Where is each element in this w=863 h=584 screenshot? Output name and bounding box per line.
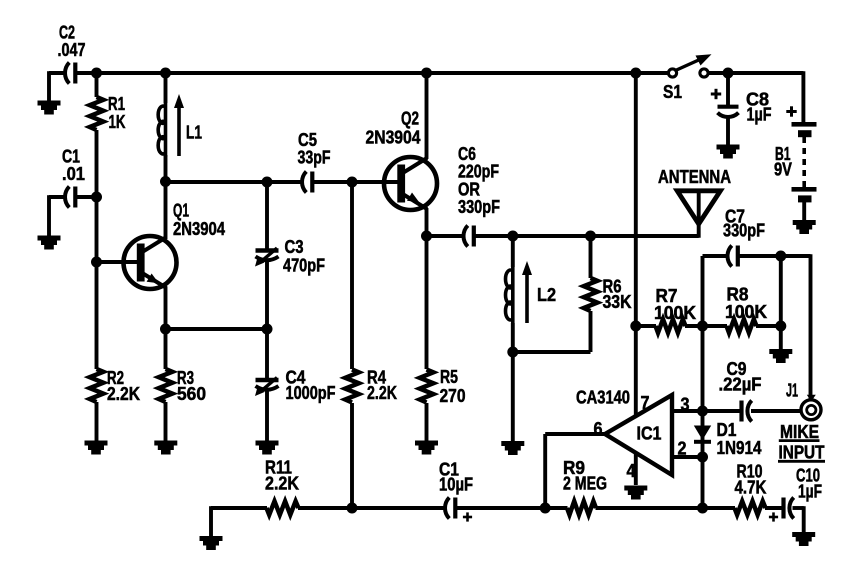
- svg-text:3: 3: [681, 395, 690, 415]
- wire R7 right lead: [685, 324, 703, 328]
- inductor L2 arrow: [525, 270, 529, 323]
- resistor R3: [159, 369, 173, 402]
- wire L1 top lead: [164, 73, 168, 103]
- node R6 top: [585, 231, 596, 242]
- node C3-C4: [262, 324, 273, 335]
- wire C2 ground lead: [47, 71, 51, 101]
- wire V+ column x636: [634, 73, 638, 434]
- svg-text:.22µF: .22µF: [719, 375, 762, 395]
- svg-text:IC1: IC1: [637, 424, 662, 444]
- capacitor C1a: [65, 187, 69, 208]
- wire jack column x809: [809, 254, 813, 399]
- wire R6 bottom lead: [589, 311, 593, 352]
- resistor R4: [345, 370, 359, 403]
- ground below R3: [154, 441, 177, 455]
- wire C3 top lead: [265, 182, 269, 249]
- svg-text:330pF: 330pF: [723, 221, 765, 241]
- wire C1 left lead: [49, 195, 67, 199]
- wire C7R8 ground column: [779, 256, 783, 350]
- node C1-R1: [91, 192, 102, 203]
- ground below C4: [256, 441, 279, 455]
- svg-text:Q1: Q1: [173, 201, 189, 221]
- capacitor C2: [65, 63, 69, 84]
- node top rail / C8: [723, 68, 734, 79]
- node R7 left: [630, 321, 641, 332]
- inductor L1: [164, 103, 168, 157]
- svg-text:MIKE: MIKE: [780, 422, 819, 442]
- wire bottom rail seg4: [596, 506, 736, 510]
- resistor R9: [567, 501, 596, 515]
- wire base line y182: [166, 180, 305, 184]
- inductor L2: [511, 267, 515, 323]
- wire L2-R6 bottom link y352: [513, 350, 591, 354]
- svg-text:2.2K: 2.2K: [107, 384, 140, 404]
- node C7 right: [775, 251, 786, 262]
- svg-text:560: 560: [177, 384, 206, 404]
- wire base line y182 right: [314, 180, 399, 184]
- inductor L1 arrow: [177, 103, 181, 156]
- resistor R2: [90, 369, 104, 402]
- svg-text:220pF: 220pF: [458, 162, 499, 182]
- wire emitter line y236: [427, 234, 466, 238]
- node C3 top: [262, 177, 273, 188]
- ground below C1: [38, 236, 61, 250]
- node L2 bottom: [507, 347, 518, 358]
- wire C10 ground drop: [802, 506, 806, 532]
- wire Q2 collector up: [425, 73, 429, 159]
- jack J1: [801, 400, 821, 420]
- plus sign B1: [786, 110, 796, 113]
- capacitor C10: [781, 498, 785, 519]
- ground below R2: [85, 441, 108, 455]
- wire C4 to ground: [265, 391, 269, 442]
- wire C9 to jack: [751, 409, 802, 413]
- wire R3 to ground: [164, 402, 168, 441]
- svg-text:33pF: 33pF: [298, 148, 331, 168]
- ground below R5: [415, 441, 438, 455]
- wire C8 top lead: [726, 73, 730, 106]
- wire pin6 down column: [543, 434, 547, 508]
- resistor R6: [584, 278, 598, 311]
- svg-text:100K: 100K: [725, 302, 767, 322]
- diode D1: [694, 426, 711, 441]
- wire R7 left lead: [636, 324, 656, 328]
- node top rail / V+ column: [630, 68, 641, 79]
- svg-text:270: 270: [440, 386, 466, 406]
- wire Q2 emitter down: [425, 208, 429, 236]
- svg-text:ANTENNA: ANTENNA: [658, 167, 731, 187]
- svg-text:1µF: 1µF: [747, 105, 772, 125]
- op-amp IC1: [605, 395, 672, 475]
- transistor Q2: [384, 157, 437, 210]
- svg-text:.047: .047: [58, 40, 86, 60]
- wire op-amp pin4 down: [634, 434, 638, 485]
- node L1-Q1 collector: [160, 176, 171, 187]
- svg-text:C3: C3: [285, 237, 304, 257]
- svg-text:R1: R1: [108, 94, 125, 114]
- wire top rail left segment: [49, 71, 67, 75]
- resistor R11: [267, 501, 299, 515]
- svg-text:1µF: 1µF: [798, 482, 822, 502]
- wire top rail after switch: [708, 71, 804, 75]
- node rail / pin6: [540, 503, 551, 514]
- capacitor C9: [739, 401, 743, 422]
- wire C7 line left: [701, 256, 705, 258]
- underline INPUT: [778, 460, 825, 463]
- svg-text:330pF: 330pF: [458, 197, 500, 217]
- ground below B1: [793, 220, 816, 234]
- svg-text:CA3140: CA3140: [576, 388, 630, 408]
- wire L2 to ground: [511, 352, 515, 442]
- svg-text:1N914: 1N914: [717, 438, 762, 458]
- wire bottom rail seg2: [298, 506, 447, 510]
- svg-text:L1: L1: [186, 123, 202, 143]
- wire feedback column x702: [701, 256, 705, 508]
- plus sign C10: [769, 516, 778, 519]
- wire antenna lead: [697, 190, 701, 238]
- wire C1 right lead: [77, 195, 97, 199]
- svg-text:S1: S1: [663, 82, 682, 102]
- underline MIKE: [779, 439, 820, 442]
- svg-text:J1: J1: [786, 381, 798, 401]
- resistor R10: [735, 501, 766, 515]
- variable capacitor C4: [256, 378, 279, 382]
- wire bottom rail seg5: [765, 506, 784, 510]
- svg-text:D1: D1: [717, 420, 737, 440]
- plus sign C8: [711, 93, 721, 96]
- capacitor C6: [464, 226, 468, 247]
- wire R5 top lead: [425, 236, 429, 369]
- svg-text:2 MEG: 2 MEG: [563, 474, 607, 494]
- svg-text:1000pF: 1000pF: [286, 383, 336, 403]
- node pin3 / D1: [697, 406, 708, 417]
- svg-text:L2: L2: [537, 285, 556, 305]
- variable capacitor C3: [256, 248, 279, 252]
- ground below C10: [792, 532, 815, 546]
- node L2 top: [507, 231, 518, 242]
- wire C1 ground lead: [47, 195, 51, 236]
- node top rail / R1: [91, 68, 102, 79]
- svg-text:2N3904: 2N3904: [173, 219, 225, 239]
- wire C8 to ground: [726, 117, 730, 145]
- svg-text:9V: 9V: [774, 160, 792, 180]
- node Q2 emitter / R5: [421, 231, 432, 242]
- svg-text:33K: 33K: [603, 292, 632, 312]
- ground below C8: [717, 145, 740, 159]
- svg-text:2: 2: [678, 439, 687, 459]
- svg-text:1K: 1K: [109, 112, 126, 132]
- svg-text:4.7K: 4.7K: [735, 478, 767, 498]
- capacitor C8: [718, 105, 739, 109]
- svg-text:10µF: 10µF: [439, 475, 473, 495]
- capacitor C1 10uF: [445, 498, 449, 519]
- svg-text:470pF: 470pF: [283, 256, 325, 276]
- wire bottom rail seg1: [211, 506, 267, 510]
- ground below C2: [38, 101, 61, 115]
- wire y236 to antenna: [475, 234, 699, 238]
- node top rail / L1: [160, 68, 171, 79]
- svg-text:2.2K: 2.2K: [265, 474, 299, 494]
- wire L2 bottom lead: [511, 323, 515, 352]
- svg-text:INPUT: INPUT: [779, 443, 825, 463]
- resistor R1: [90, 97, 104, 130]
- svg-text:2N3904: 2N3904: [366, 128, 421, 148]
- wire L1 bottom lead: [164, 155, 168, 182]
- wire left bias column mid: [95, 130, 99, 369]
- capacitor C7: [728, 246, 732, 267]
- wire bottom rail seg3: [457, 506, 568, 510]
- ground below L2: [501, 441, 524, 455]
- wire bottom rail seg6: [793, 506, 804, 510]
- wire op-amp pin6 line: [545, 432, 606, 436]
- wire L2 top lead: [511, 236, 515, 267]
- svg-text:R5: R5: [440, 367, 458, 387]
- node Q1 emitter: [160, 324, 171, 335]
- svg-text:.01: .01: [62, 164, 85, 184]
- switch S1: [668, 69, 676, 77]
- resistor R8: [727, 319, 757, 333]
- node top rail / Q2 collector: [421, 68, 432, 79]
- node rail / R4: [347, 503, 358, 514]
- node R7-R8: [697, 321, 708, 332]
- ground bottom rail left: [200, 536, 223, 550]
- wire C3 to C4: [265, 261, 269, 379]
- wire R2 to ground: [95, 402, 99, 441]
- wire top rail main segment: [77, 71, 669, 75]
- wire R4 column top: [350, 182, 354, 369]
- svg-text:100K: 100K: [654, 303, 696, 323]
- capacitor C5: [302, 172, 306, 193]
- svg-text:Q2: Q2: [401, 109, 419, 129]
- wire emitter line y329: [166, 327, 268, 331]
- resistor R7: [656, 319, 686, 333]
- wire R8 right lead: [756, 324, 781, 328]
- wire op-amp pin2 line: [672, 455, 703, 459]
- ground below R8: [769, 349, 792, 363]
- resistor R5: [420, 370, 434, 403]
- svg-text:7: 7: [641, 393, 650, 413]
- wire battery feed down: [801, 71, 805, 122]
- wire bottom rail left drop: [209, 506, 213, 536]
- node rail / D1 column: [697, 503, 708, 514]
- wire R4 column bottom: [350, 403, 354, 508]
- ground op-amp pin4: [624, 486, 647, 500]
- wire R3 top lead: [164, 329, 168, 369]
- wire R5 to ground: [425, 403, 429, 441]
- svg-text:4: 4: [627, 461, 636, 481]
- svg-text:2.2K: 2.2K: [367, 383, 397, 403]
- node R4 top: [347, 177, 358, 188]
- wire C7 line right: [739, 254, 811, 258]
- plus sign C1 10uF: [463, 516, 472, 519]
- wire op-amp pin3 line: [672, 409, 742, 413]
- antenna symbol: [677, 191, 720, 224]
- transistor Q1: [124, 236, 177, 289]
- node Q1 base: [91, 257, 102, 268]
- node C7-R8 right: [775, 321, 786, 332]
- wire R8 left lead: [703, 324, 728, 328]
- battery B1: [792, 122, 817, 127]
- node pin2 / D1: [697, 452, 708, 463]
- wire R6 top lead: [589, 236, 593, 278]
- wire left bias column: [95, 73, 99, 97]
- svg-text:6: 6: [594, 419, 603, 439]
